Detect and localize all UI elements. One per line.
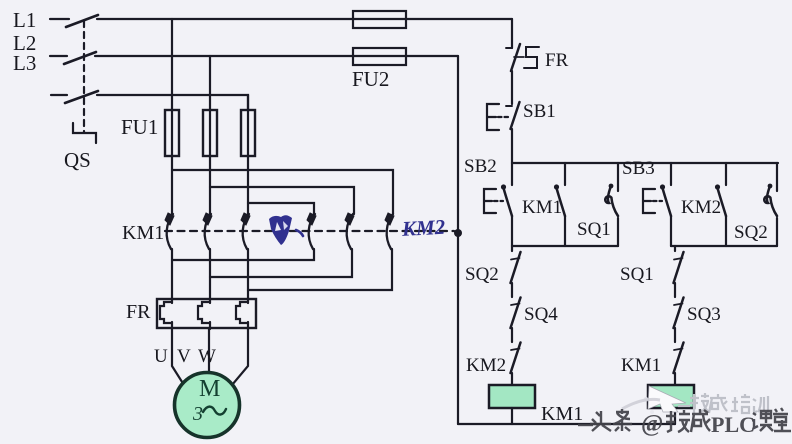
svg-text:SQ1: SQ1 (620, 264, 654, 285)
wire L1 stub (50, 18, 69, 20)
svg-text:SQ3: SQ3 (687, 304, 721, 325)
limit switch SQ3 contact (NC) (674, 304, 683, 306)
svg-text:FU2: FU2 (352, 67, 389, 91)
svg-text:QS: QS (64, 148, 91, 172)
wire crossover bottom 1 (172, 249, 314, 260)
svg-text:M: M (199, 376, 220, 402)
wire control top bus (512, 162, 778, 164)
wire U to motor (172, 328, 184, 385)
contactor KM1 main contact 1 (165, 213, 174, 249)
svg-text:FR: FR (545, 50, 569, 71)
coil KM1 (489, 385, 535, 408)
wire L2 stub (50, 55, 67, 57)
svg-text:SB3: SB3 (622, 158, 655, 179)
relay contact FR (NC) (506, 47, 512, 49)
thermal relay FR heater 2 (198, 302, 210, 323)
svg-text:U: U (154, 346, 168, 367)
contactor KM2 main contact 3 (385, 213, 394, 249)
limit switch SQ2 contact (NO) (776, 163, 778, 191)
svg-text:FR: FR (126, 301, 151, 323)
disconnect QS pole 1 blade (66, 15, 98, 27)
wire phase C drop (247, 95, 249, 214)
svg-text:KM1: KM1 (621, 355, 661, 376)
wire left group bottom bus (512, 245, 618, 247)
svg-text:SQ1: SQ1 (577, 219, 611, 240)
wire crossover bottom 3 (248, 249, 392, 290)
wire phase B drop (209, 56, 211, 214)
contactor KM1 main contact 3 (241, 213, 250, 249)
wire W to motor (232, 328, 248, 385)
disconnect QS handle (73, 123, 96, 143)
coil KM2 (648, 385, 694, 408)
wire crossover bottom 2 (210, 249, 352, 277)
handwriting blue comma (296, 230, 303, 236)
wire FU2-1 down to FR contact (511, 19, 513, 48)
fuse FU1 element 1 (165, 110, 179, 156)
contactor KM1 aux contact (NO) (564, 163, 566, 185)
svg-text:SQ2: SQ2 (734, 222, 768, 243)
svg-text:SQ4: SQ4 (524, 304, 558, 325)
svg-text:KM2: KM2 (681, 197, 721, 218)
watermark dark text 头条 @技成PLC课堂 (578, 409, 632, 431)
contactor KM2 main contact 2 (345, 213, 354, 249)
linkage dashed KM1-KM2 (165, 230, 454, 232)
svg-text:L3: L3 (13, 51, 36, 75)
svg-text:SQ2: SQ2 (465, 264, 499, 285)
pushbutton SB3 (NO) (670, 163, 672, 185)
svg-text:KM1: KM1 (522, 197, 562, 218)
thermal relay FR box (157, 299, 256, 328)
svg-text:3: 3 (192, 403, 203, 425)
svg-text:KM2: KM2 (466, 355, 506, 376)
watermark faint text 一技成培训 (678, 393, 768, 413)
watermark faint swoosh (622, 399, 660, 409)
svg-text:L1: L1 (13, 8, 36, 32)
limit switch SQ1 contact (NC, right branch) (674, 246, 676, 251)
svg-text:FU1: FU1 (121, 115, 158, 139)
thermal relay FR heater 3 (236, 302, 248, 323)
wire L2 to FU2 (95, 55, 458, 57)
fuse FU1 element 2 (203, 110, 217, 156)
wire KM1 contact bottoms to FR (171, 249, 173, 300)
wire control bottom bus (458, 423, 675, 425)
wire FR heater stubs (171, 299, 173, 303)
svg-text:KM1: KM1 (541, 403, 583, 425)
pushbutton SB1 (NC) (506, 105, 512, 107)
limit switch SQ4 contact (NC) (511, 304, 520, 306)
svg-text:V: V (177, 346, 191, 367)
disconnect QS linkage (dashed) (83, 21, 85, 132)
node junction dot on control rail (454, 229, 462, 237)
pushbutton SB2 (NO) (511, 163, 513, 185)
wire L1 to FU2 (97, 18, 512, 20)
disconnect QS pole 2 blade (64, 52, 96, 64)
wire control left rail (457, 56, 459, 424)
contactor KM1 main contact 2 (203, 213, 212, 249)
wire crossover top 2 (L2 to KM2 mid) (210, 187, 354, 214)
wire phase A drop (171, 19, 173, 214)
contactor KM2 interlock contact (NC) (511, 349, 520, 351)
fuse FU2 element 1 (353, 11, 406, 28)
svg-text:@: @ (641, 411, 663, 437)
contactor KM2 main contact 1 (307, 213, 316, 249)
contactor KM1 interlock contact (NC) (674, 349, 683, 351)
svg-text:SB1: SB1 (523, 101, 556, 122)
wire crossover top 3 (L3 to KM2 left) (248, 203, 314, 214)
contactor KM2 aux contact (NO) (725, 163, 727, 185)
wire L3 (97, 95, 248, 110)
thermal release symbol FR (524, 47, 539, 68)
handwriting blue blob (269, 215, 292, 245)
wire V to motor (208, 328, 210, 374)
wire L3 stub (51, 94, 67, 96)
wire right group bottom bus (671, 245, 777, 247)
svg-text:KM1: KM1 (122, 222, 164, 244)
limit switch SQ2 contact (NC, left branch) (511, 246, 513, 251)
disconnect QS pole 3 blade (65, 91, 98, 103)
svg-text:PLC: PLC (711, 412, 755, 437)
motor M circle (175, 373, 240, 438)
watermark cursor over KM2 coil (644, 386, 686, 414)
fuse FU1 element 3 (241, 110, 255, 156)
wire KM2 coil to bottom bus (674, 408, 676, 424)
wire KM1 coil to bottom bus (511, 408, 513, 424)
thermal relay FR heater 1 (160, 302, 172, 323)
fuse FU2 element 2 (353, 48, 406, 65)
svg-text:SB2: SB2 (464, 156, 497, 177)
limit switch SQ1 contact (NO) (617, 163, 619, 191)
svg-text:W: W (198, 346, 216, 367)
wire crossover top 1 (L1 to KM2 right) (172, 170, 393, 214)
svg-text:KM2: KM2 (400, 215, 446, 241)
